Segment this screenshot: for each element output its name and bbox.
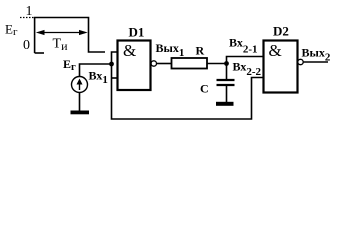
logic gate D2 body (264, 41, 298, 93)
logic gate D1 body (118, 41, 151, 91)
svg-text:0: 0 (23, 38, 30, 53)
wire node to capacitor (226, 64, 228, 82)
wire node to D2 input 2-1 (227, 57, 264, 64)
capacitor C plates (217, 79, 235, 81)
svg-text:1: 1 (26, 4, 33, 19)
wire source to ground (79, 93, 81, 112)
svg-text:Вых2: Вых2 (302, 46, 331, 64)
wire Ег to node Вх1 (80, 64, 112, 77)
svg-text:Вых1: Вых1 (156, 41, 185, 59)
svg-text:Ег: Ег (63, 57, 76, 73)
svg-text:Вх2-1: Вх2-1 (229, 36, 258, 56)
wire D1 lower input stub (112, 77, 119, 79)
ground (source) (71, 111, 90, 115)
source arrow (79, 82, 81, 90)
D2 inverted output circle (298, 59, 303, 64)
wire pulse to D1 input tie (112, 52, 119, 78)
wire D1 output to R (157, 63, 172, 65)
svg-text:D1: D1 (129, 25, 145, 40)
svg-text:&: & (123, 41, 136, 60)
source Ег circle (72, 77, 88, 93)
node RC junction dot (224, 61, 229, 66)
svg-text:Вх1: Вх1 (89, 69, 108, 87)
svg-text:Ти: Ти (53, 37, 69, 54)
svg-text:Вх2-2: Вх2-2 (233, 60, 262, 79)
waveform zero level foot (35, 52, 44, 54)
arrow Tи duration (39, 32, 85, 34)
D1 inverted output circle (151, 61, 156, 66)
svg-text:Ег: Ег (5, 22, 18, 39)
wire D2 output Вых2 (304, 61, 329, 63)
ground (capacitor) (216, 102, 234, 106)
dotted level line (20, 17, 35, 19)
svg-text:D2: D2 (273, 24, 289, 39)
wire node Вх1 to D2 input 2-2 (bottom return) (112, 78, 264, 120)
wire capacitor to ground (226, 86, 228, 103)
resistor R (172, 58, 208, 69)
waveform pulse (35, 18, 105, 54)
node Вх1 junction dot (109, 62, 114, 67)
svg-text:&: & (269, 41, 282, 60)
svg-text:R: R (196, 44, 205, 58)
svg-text:С: С (200, 82, 209, 96)
wire R to node (207, 63, 227, 65)
